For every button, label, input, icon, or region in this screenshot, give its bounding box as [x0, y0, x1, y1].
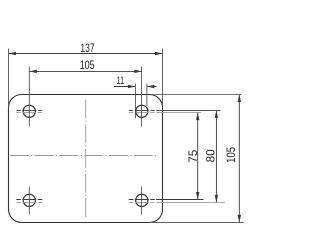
arrowhead 80 top: [215, 110, 219, 118]
svg-text:11: 11: [117, 75, 125, 87]
extension line top for dim 105 right (plate top edge extended): [150, 94, 242, 96]
arrowhead 137 right: [155, 52, 163, 56]
extension line left for dim 137: [8, 49, 10, 111]
hole top-left vertical centerline / extension of dim 105: [28, 67, 30, 127]
dimension 11 left tail: [114, 86, 135, 88]
hole top-right centerline gray, extends right for dim 75: [129, 112, 201, 114]
arrowhead 105 right: [134, 70, 142, 74]
hole top-right vertical centerline / extension of dim 105: [141, 67, 143, 127]
extension line 11 left / slot edge: [134, 84, 136, 119]
arrowhead 137 left: [9, 52, 17, 56]
hole bottom-right vertical centerline: [141, 187, 143, 215]
hole bottom-left vertical centerline: [28, 187, 30, 215]
hole top-left: [23, 105, 35, 117]
dimension line 105 right: [238, 95, 240, 223]
arrowhead 105 right top: [238, 95, 242, 103]
hole bottom-left centerline gray: [16, 201, 42, 203]
hole bottom-right centerline gray, extends right for dim 80: [129, 201, 225, 203]
plate outline: [9, 95, 163, 223]
hole bottom-right centerline dark, extends right for dim 75: [129, 199, 204, 201]
hole bottom-left: [23, 194, 35, 206]
hole top-right: [136, 105, 148, 117]
arrowhead 11 left (outside, pointing right): [128, 85, 135, 89]
extension line 11 right: [146, 84, 148, 107]
dimension 11 right tail: [147, 86, 157, 88]
hole bottom-left centerline dark: [16, 199, 42, 201]
arrowhead 80 bottom: [215, 195, 219, 203]
extension line bottom for dim 105 right (plate bottom edge extended): [150, 221, 244, 223]
extension line right for dim 137: [162, 49, 164, 111]
dimension line 75: [197, 113, 199, 200]
arrowhead 75 top: [196, 113, 200, 121]
plate vertical centerline: [85, 100, 87, 218]
arrowhead 105 left: [29, 70, 37, 74]
arrowhead 105 right bottom: [238, 215, 242, 223]
svg-text:105: 105: [80, 59, 95, 72]
dimension line 137: [9, 53, 163, 55]
dimension line 105 top: [29, 70, 142, 72]
hole top-right centerline dark, extends right for dim 80: [129, 109, 221, 111]
svg-text:75: 75: [187, 149, 200, 162]
plate horizontal centerline: [10, 155, 156, 157]
arrowhead 75 bottom: [196, 192, 200, 200]
svg-text:80: 80: [204, 149, 217, 162]
arrowhead 11 right (outside, pointing left): [147, 85, 155, 89]
hole bottom-right: [136, 194, 148, 206]
svg-text:137: 137: [80, 42, 94, 55]
dimension line 80: [215, 110, 217, 202]
svg-text:105: 105: [225, 147, 238, 163]
hole top-left centerline dark: [16, 109, 42, 111]
hole top-left centerline gray: [16, 112, 42, 114]
